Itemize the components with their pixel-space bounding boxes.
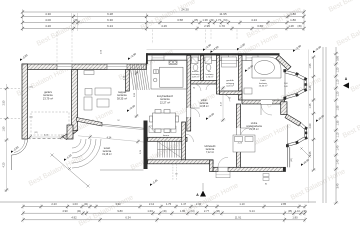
- svg-text:1.40: 1.40: [337, 145, 340, 150]
- svg-text:3.92: 3.92: [115, 202, 121, 206]
- svg-text:4.90: 4.90: [62, 209, 68, 213]
- label wc: [206, 71, 215, 79]
- label furdo: [259, 79, 268, 88]
- dining table kitchen: [150, 110, 179, 133]
- wall main top dark band: [147, 53, 280, 55]
- windows main top wall: [152, 55, 164, 60]
- level mark right lower: [314, 113, 325, 123]
- svg-text:3.58: 3.58: [177, 18, 183, 22]
- svg-text:4.26: 4.26: [161, 24, 167, 28]
- svg-text:7,12 m²: 7,12 m²: [206, 151, 214, 154]
- level mark -0.90 fence: [9, 145, 19, 154]
- dim line top row3: [23, 28, 305, 30]
- room label eloter: [199, 99, 209, 108]
- svg-text:kerámia: kerámia: [259, 82, 268, 85]
- svg-text:11.91: 11.91: [235, 215, 242, 219]
- window garage top 1: [57, 64, 72, 70]
- svg-text:1.63: 1.63: [147, 209, 153, 213]
- garage front dim line: [30, 136, 62, 138]
- svg-text:90: 90: [193, 88, 195, 90]
- cabinet nappali top wall: [84, 71, 94, 75]
- fixtures mosdo: [192, 57, 199, 71]
- garage car dashed outline: [31, 112, 69, 135]
- stairs next to kitchen: [130, 64, 149, 91]
- terrace pier: [67, 125, 73, 139]
- svg-text:29,55 m²: 29,55 m²: [249, 128, 259, 131]
- svg-text:1.80: 1.80: [290, 12, 296, 16]
- label lepcsohaz room: [205, 145, 216, 154]
- garage door dashed opening: [28, 138, 63, 140]
- wall below mosdo wc: [191, 81, 217, 85]
- section A guide line: [202, 183, 204, 190]
- svg-text:fürdő: fürdő: [261, 79, 267, 82]
- terrace fan steps: [72, 139, 101, 168]
- svg-text:1.70: 1.70: [219, 24, 225, 28]
- section marker A right: [343, 77, 349, 89]
- svg-text:2.42: 2.42: [196, 202, 202, 206]
- svg-text:2.12: 2.12: [149, 202, 155, 206]
- dim line inside hall: [222, 86, 224, 122]
- svg-text:2.60: 2.60: [309, 123, 312, 128]
- right eaves line: [308, 50, 310, 204]
- room label konyha: [157, 94, 174, 104]
- terrace door line nappali: [102, 124, 144, 128]
- svg-text:6.34: 6.34: [125, 215, 131, 219]
- svg-text:gardrób: gardrób: [226, 79, 234, 82]
- wall main top inner: [147, 60, 281, 62]
- svg-text:9.14: 9.14: [249, 209, 255, 213]
- svg-text:23,79 m²: 23,79 m²: [43, 96, 53, 100]
- svg-text:9.80: 9.80: [117, 209, 123, 213]
- dashed guides below stairs: [172, 164, 174, 180]
- svg-text:(34): (34): [223, 19, 227, 22]
- eaves line above main block: [147, 48, 301, 50]
- svg-text:(45): (45): [29, 87, 33, 89]
- svg-text:1.80: 1.80: [290, 18, 296, 22]
- wall nappali-kitchen: [126, 70, 130, 92]
- svg-text:4.30: 4.30: [45, 12, 51, 16]
- left dashed projection lines: [0, 88, 22, 90]
- svg-text:4.24: 4.24: [251, 18, 257, 22]
- label gardrob: [226, 79, 235, 88]
- svg-text:6.28: 6.28: [107, 12, 113, 16]
- svg-text:1.35: 1.35: [309, 103, 312, 108]
- door arcs hall lower: [186, 134, 194, 142]
- level mark above furdo: [291, 43, 302, 53]
- room label szoba: [246, 122, 262, 131]
- sofa group nappali: [84, 88, 111, 110]
- svg-text:2.00: 2.00: [284, 83, 288, 85]
- svg-text:1.73: 1.73: [216, 18, 222, 22]
- gardrob shelves: [222, 57, 237, 67]
- svg-text:1.28: 1.28: [288, 24, 294, 28]
- svg-text:4.00: 4.00: [45, 18, 51, 22]
- window nappali top: [107, 64, 127, 70]
- svg-text:4.20: 4.20: [2, 162, 5, 167]
- svg-text:1.80: 1.80: [2, 126, 5, 131]
- svg-text:60: 60: [228, 98, 230, 100]
- wall hall-szoba: [237, 104, 241, 168]
- wall bedroom bottom: [213, 167, 286, 171]
- level mark below building: [148, 178, 158, 187]
- svg-text:1.10: 1.10: [337, 79, 340, 84]
- extension lines below top dims: [152, 30, 154, 45]
- wall garage right: [72, 70, 78, 131]
- svg-text:(16): (16): [190, 211, 194, 213]
- svg-text:(96): (96): [216, 211, 220, 213]
- svg-text:2.85: 2.85: [281, 202, 287, 206]
- level mark +2.90 top: [126, 51, 137, 61]
- right dim chain inner: [313, 57, 315, 170]
- window extension dashed verticals: [56, 31, 58, 63]
- svg-text:2.23: 2.23: [51, 202, 57, 206]
- right dim chain outer: [335, 47, 337, 203]
- svg-text:1.10: 1.10: [337, 132, 340, 137]
- svg-text:0.90: 0.90: [337, 56, 340, 61]
- svg-text:1.20: 1.20: [337, 67, 340, 72]
- svg-text:1.38: 1.38: [202, 18, 208, 22]
- svg-text:1.47: 1.47: [181, 202, 187, 206]
- dim line inside nappali: [136, 71, 138, 118]
- room label nappali: [117, 90, 127, 100]
- svg-text:38,35 m²: 38,35 m²: [117, 96, 127, 100]
- svg-text:4.34: 4.34: [107, 137, 112, 140]
- svg-text:4.20: 4.20: [45, 24, 51, 28]
- svg-text:2.77: 2.77: [204, 209, 210, 213]
- svg-text:szőnyeg: szőnyeg: [226, 83, 235, 85]
- door arcs mosdo wc: [194, 84, 201, 91]
- svg-text:2,87 m²: 2,87 m²: [192, 76, 200, 79]
- svg-text:(43): (43): [291, 158, 293, 162]
- svg-text:(52): (52): [34, 132, 38, 134]
- wall back-left dark: [144, 121, 148, 170]
- level mark -0.90 garage: [18, 53, 28, 62]
- level mark +0.00 right top: [311, 44, 322, 54]
- wall below gardrob: [220, 91, 243, 95]
- level mark second top mid: [209, 44, 220, 54]
- svg-text:3.40: 3.40: [337, 183, 340, 188]
- svg-text:4,20 m²: 4,20 m²: [226, 85, 234, 88]
- wall below bay2 thin: [288, 147, 290, 168]
- svg-text:2.35: 2.35: [309, 85, 312, 90]
- svg-text:1.35: 1.35: [337, 120, 340, 125]
- level mark +2.90 top mid: [201, 42, 212, 52]
- wall mosdo-wc divider: [201, 55, 204, 80]
- svg-text:1.03: 1.03: [72, 202, 78, 206]
- wall garage left: [22, 64, 28, 139]
- door kitchen to hall: [187, 108, 200, 117]
- wall nappali south slanted: [77, 118, 103, 127]
- door hall-szoba: [237, 128, 250, 137]
- level mark terrace: [62, 153, 72, 162]
- svg-text:kerámia: kerámia: [192, 73, 201, 76]
- washbasin furdo: [244, 88, 252, 94]
- svg-text:(45): (45): [29, 117, 33, 119]
- wall furdo bottom: [242, 100, 285, 104]
- svg-text:1.55: 1.55: [337, 105, 340, 110]
- svg-text:mosók.: mosók.: [192, 71, 199, 73]
- svg-text:(44): (44): [84, 204, 88, 206]
- left dim chain: [6, 84, 8, 192]
- room label garazs: [43, 90, 53, 100]
- room label terasz: [102, 147, 112, 156]
- wall kitchen bottom: [148, 137, 188, 141]
- bay window 1: [283, 69, 307, 100]
- kitchen counter U-shape: [151, 60, 187, 89]
- dim line bottom row1: [23, 206, 305, 208]
- svg-text:kerámia: kerámia: [206, 73, 215, 76]
- dim line top row2: [23, 22, 305, 24]
- door furdo-szoba: [261, 100, 272, 115]
- section marker A bottom: [196, 191, 206, 198]
- dim diagonal at bay2 corner: [300, 147, 310, 157]
- svg-text:4.92: 4.92: [71, 215, 77, 219]
- level mark eloter: [204, 111, 215, 121]
- wall back bottom left: [148, 160, 214, 164]
- svg-text:1.75: 1.75: [166, 202, 172, 206]
- dim line top overall 24.30: [23, 11, 305, 13]
- wall garage corner diagonal: [63, 131, 78, 140]
- wall step entrance: [210, 160, 214, 172]
- right section line pair: [322, 47, 324, 203]
- entrance stoop: [216, 172, 230, 178]
- wall stairs right: [182, 122, 186, 160]
- svg-text:10,35 m²: 10,35 m²: [259, 85, 268, 88]
- svg-text:22,27 m²: 22,27 m²: [160, 100, 170, 104]
- level mark szoba southeast: [299, 157, 310, 167]
- svg-text:1.10: 1.10: [239, 202, 245, 206]
- svg-text:2.95: 2.95: [204, 24, 210, 28]
- top dim guide verticals: [71, 13, 73, 31]
- terrace dim line 4.34: [78, 136, 144, 142]
- svg-text:3.69: 3.69: [257, 24, 263, 28]
- wall main top step at kitchen: [146, 53, 148, 64]
- bed bedroom: [233, 135, 255, 152]
- bay window 2: [286, 123, 308, 147]
- level mark above gardrob: [235, 42, 246, 52]
- svg-text:2.50: 2.50: [2, 100, 5, 105]
- curved garden wall bottom left: [12, 139, 28, 170]
- wall canted above bay2: [285, 114, 301, 126]
- svg-text:(45): (45): [297, 26, 301, 28]
- fixtures wc: [205, 57, 212, 71]
- entrance door gap and arc: [218, 157, 228, 171]
- svg-text:1,75 m²: 1,75 m²: [206, 76, 214, 79]
- svg-text:11.95: 11.95: [219, 12, 227, 16]
- svg-text:(32): (32): [210, 19, 214, 22]
- svg-text:6.30: 6.30: [107, 18, 113, 22]
- svg-text:(44): (44): [77, 211, 81, 213]
- svg-text:1.80: 1.80: [292, 215, 298, 219]
- bottom boundary line: [0, 201, 316, 203]
- svg-text:kamra: kamra: [163, 134, 170, 137]
- slope line with x markers: [51, 154, 90, 188]
- svg-text:11,98 m²: 11,98 m²: [199, 105, 208, 108]
- svg-text:2.40: 2.40: [284, 86, 288, 88]
- svg-text:1.80: 1.80: [180, 209, 186, 213]
- svg-text:(48): (48): [302, 211, 306, 213]
- wall garage top: [22, 64, 147, 70]
- svg-text:(46): (46): [162, 211, 166, 213]
- terrace bottom edge: [100, 169, 144, 171]
- wall stub between bays: [281, 102, 287, 115]
- wall wc-gardrob divider: [217, 55, 220, 94]
- dim line bottom row3: [23, 219, 305, 221]
- wall kitchen right: [187, 55, 191, 131]
- label mosdo: [192, 71, 201, 79]
- wall canted corner top right: [276, 55, 291, 69]
- svg-text:1.10: 1.10: [295, 210, 300, 213]
- svg-text:(35): (35): [288, 211, 292, 213]
- stairs lower middle: [158, 142, 182, 158]
- dim line top row1: [23, 15, 305, 17]
- bathtub corner: [252, 57, 281, 78]
- svg-text:19,18 m²: 19,18 m²: [102, 153, 112, 156]
- svg-text:1.95: 1.95: [309, 63, 312, 68]
- appliance boxes utility: [149, 126, 176, 133]
- level mark nappali: [125, 103, 136, 113]
- level mark furdo corner: [243, 63, 254, 73]
- svg-text:6.24: 6.24: [107, 24, 113, 28]
- svg-text:1.40: 1.40: [337, 159, 340, 164]
- door gardrob: [223, 95, 230, 102]
- dim line bottom row2: [23, 212, 305, 214]
- svg-text:1.20: 1.20: [337, 91, 340, 96]
- drain symbol below bedroom wall: [263, 174, 269, 181]
- wall gardrob-furdo divider: [239, 55, 243, 100]
- svg-text:24.30: 24.30: [181, 8, 189, 12]
- svg-text:(45): (45): [194, 19, 198, 22]
